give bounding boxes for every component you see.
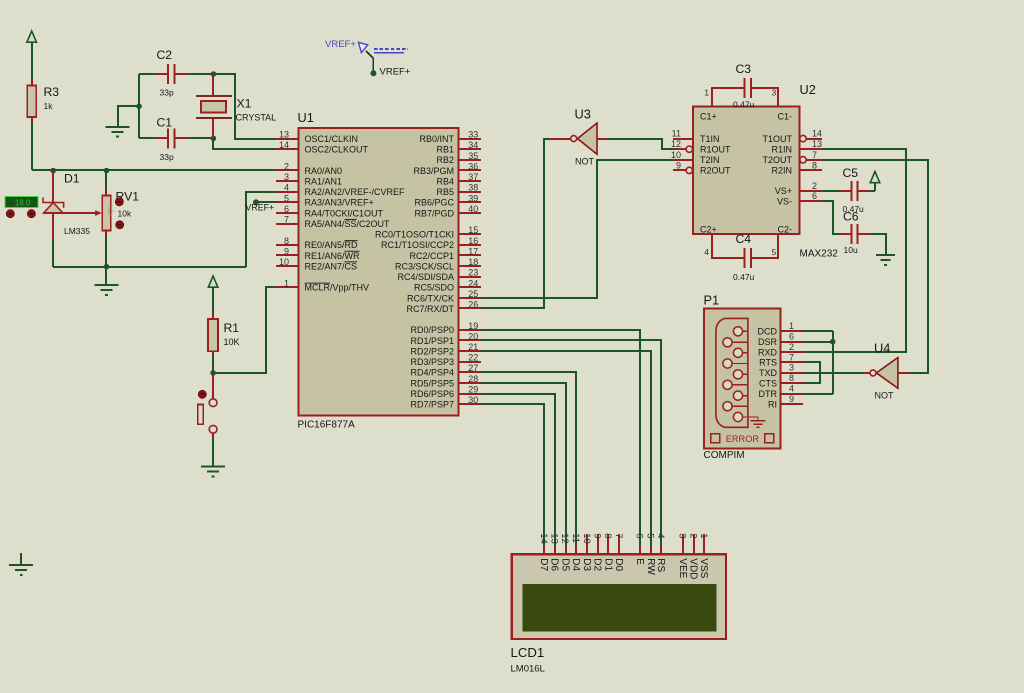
- wire C3 pin3 side: [752, 88, 778, 108]
- svg-text:U3: U3: [575, 107, 591, 122]
- svg-text:VREF+: VREF+: [380, 67, 411, 78]
- svg-text:VREF+: VREF+: [325, 39, 356, 50]
- svg-text:38: 38: [468, 183, 478, 193]
- wire C6 to ground: [858, 234, 886, 255]
- wire C2 left: [139, 73, 168, 75]
- svg-text:R3: R3: [44, 85, 60, 99]
- U1 pin 3 RA1/AN1: [276, 172, 342, 186]
- svg-text:RA1/AN1: RA1/AN1: [305, 177, 343, 187]
- svg-text:14: 14: [279, 140, 289, 150]
- svg-text:6: 6: [812, 191, 817, 201]
- svg-text:10: 10: [671, 150, 681, 160]
- svg-text:RE2/AN7/CS: RE2/AN7/CS: [305, 261, 358, 271]
- LCD pin 13 D6: [549, 533, 560, 571]
- svg-text:10K: 10K: [224, 337, 240, 347]
- svg-text:PIC16F877A: PIC16F877A: [298, 420, 356, 431]
- node RV1 ground: [104, 264, 110, 270]
- svg-text:12: 12: [559, 533, 570, 544]
- wire RD4 to LCD D4: [481, 372, 576, 548]
- power VCC arrow (C5): [870, 172, 880, 183]
- svg-text:9: 9: [789, 394, 794, 404]
- DB9 hole 5: [733, 370, 748, 379]
- U2 pin VS-: [777, 191, 822, 206]
- svg-text:3: 3: [772, 88, 777, 98]
- wire R1 to junction: [212, 356, 214, 373]
- U1 pin 22 RD3/PSP3: [410, 353, 481, 367]
- svg-text:C1-: C1-: [777, 111, 792, 121]
- U1 pin 38 RB5: [436, 183, 481, 197]
- svg-text:U4: U4: [874, 341, 890, 356]
- svg-text:COMPIM: COMPIM: [704, 450, 745, 461]
- svg-text:RD5/PSP5: RD5/PSP5: [410, 378, 454, 388]
- svg-text:9: 9: [284, 246, 289, 256]
- svg-text:40%: 40%: [109, 204, 115, 215]
- wire VCC to R1: [212, 287, 214, 319]
- DB9 shell ground: [743, 417, 766, 427]
- ground (floating, bottom-left): [9, 553, 33, 575]
- DB9 hole 2: [723, 338, 748, 347]
- wire RV1 bottom: [105, 235, 107, 267]
- svg-text:VS+: VS+: [775, 186, 792, 196]
- DB9 hole 4: [723, 359, 748, 368]
- svg-text:11: 11: [570, 533, 581, 543]
- capacitor C2: [157, 48, 175, 98]
- svg-text:27: 27: [468, 363, 478, 373]
- DB9 hole 3: [733, 348, 748, 357]
- node RV1 top: [104, 168, 110, 174]
- svg-text:RA0/AN0: RA0/AN0: [305, 166, 343, 176]
- svg-text:OSC1/CLKIN: OSC1/CLKIN: [305, 134, 359, 144]
- wire D1 bottom pin: [52, 213, 54, 242]
- U2 pin C1+: [700, 111, 717, 121]
- svg-text:NOT: NOT: [875, 391, 895, 401]
- svg-text:28: 28: [468, 374, 478, 384]
- svg-text:RD7/PSP7: RD7/PSP7: [410, 400, 454, 410]
- svg-text:MAX232: MAX232: [800, 249, 839, 260]
- svg-text:RB0/INT: RB0/INT: [419, 134, 454, 144]
- svg-text:11: 11: [672, 129, 681, 139]
- wire RD2 to LCD RW: [481, 351, 651, 548]
- svg-text:1: 1: [704, 88, 709, 98]
- svg-text:24: 24: [468, 278, 478, 288]
- svg-text:C2: C2: [157, 48, 173, 62]
- svg-text:4: 4: [704, 247, 709, 257]
- svg-text:18.0: 18.0: [15, 199, 31, 208]
- node VREF+ (pin 5): [253, 199, 259, 205]
- svg-text:7: 7: [613, 533, 624, 538]
- wire VREF+ terminal: [366, 51, 373, 72]
- RV1 terminal top: [115, 198, 123, 206]
- svg-text:RTS: RTS: [759, 358, 777, 368]
- svg-text:RE0/AN5/RD: RE0/AN5/RD: [305, 240, 359, 250]
- svg-text:3: 3: [677, 533, 688, 538]
- svg-text:VSS: VSS: [698, 558, 709, 578]
- terminal VREF+ (blue): [325, 39, 408, 53]
- svg-text:VREF+: VREF+: [246, 203, 275, 213]
- svg-text:1k: 1k: [44, 101, 54, 111]
- RV1 terminal bottom: [116, 221, 124, 229]
- svg-text:39: 39: [468, 193, 478, 203]
- wire D1 top pin: [52, 170, 54, 202]
- DB9 connector outline: [716, 318, 748, 427]
- wire crystal to OSC1: [213, 74, 276, 139]
- DB9 hole 7: [733, 391, 748, 400]
- svg-text:LM335: LM335: [64, 226, 90, 236]
- U1 pin 24 RC5/SDO: [414, 278, 481, 292]
- svg-text:RC6/TX/CK: RC6/TX/CK: [407, 293, 454, 303]
- LCD pin 9 D2: [592, 533, 603, 571]
- svg-text:DSR: DSR: [758, 337, 778, 347]
- U1 pin 9 RE1/AN6/WR: [276, 246, 360, 260]
- U1 pin 5 RA3/AN3/VREF+: [276, 193, 374, 207]
- LCD pin 5 RW: [645, 533, 656, 575]
- svg-text:RXD: RXD: [758, 347, 778, 357]
- svg-text:RA5/AN4/SS/C2OUT: RA5/AN4/SS/C2OUT: [305, 219, 391, 229]
- svg-text:9: 9: [592, 533, 603, 538]
- svg-text:CTS: CTS: [759, 379, 777, 389]
- svg-text:RA2/AN2/VREF-/CVREF: RA2/AN2/VREF-/CVREF: [305, 187, 406, 197]
- U1 pin 17 RC2/CCP1: [409, 246, 481, 260]
- svg-text:T2OUT: T2OUT: [762, 155, 792, 165]
- P1 pin 4 DTR: [759, 384, 804, 399]
- U2 pin T1IN: [673, 134, 720, 144]
- U1 pin 36 RB3/PGM: [413, 162, 481, 176]
- svg-text:D6: D6: [549, 558, 560, 571]
- svg-text:RD6/PSP6: RD6/PSP6: [410, 389, 454, 399]
- DB9 hole 6: [723, 380, 748, 389]
- svg-text:10u: 10u: [844, 245, 858, 255]
- LCD pin 14 D7: [538, 533, 549, 571]
- wire VS- to C6: [822, 201, 852, 234]
- svg-text:T1OUT: T1OUT: [762, 134, 792, 144]
- svg-text:C2+: C2+: [700, 225, 717, 235]
- wire TXD to U4 output: [803, 372, 863, 374]
- capacitor C4: [733, 232, 755, 282]
- U2 pin T2OUT: [762, 150, 822, 165]
- svg-text:16: 16: [468, 236, 478, 246]
- U2 pin R2IN: [771, 160, 822, 175]
- wire bottom rail: [53, 266, 246, 268]
- U1 pin 29 RD6/PSP6: [410, 385, 481, 399]
- svg-text:RC2/CCP1: RC2/CCP1: [409, 251, 454, 261]
- LCD pin 10 D3: [581, 533, 592, 571]
- LCD pin 6 E: [634, 533, 645, 565]
- svg-text:RB4: RB4: [436, 177, 454, 187]
- wire osc left vertical: [138, 74, 140, 138]
- wire junction to MCLR: [213, 287, 276, 373]
- svg-text:18: 18: [468, 257, 478, 267]
- U1 pin 34 RB1: [436, 140, 481, 154]
- P1 pin 8 CTS: [759, 373, 803, 388]
- svg-text:10: 10: [581, 533, 592, 544]
- svg-text:40: 40: [468, 204, 478, 214]
- svg-text:4: 4: [284, 183, 289, 193]
- U1 pin 14 OSC2/CLKOUT: [276, 140, 369, 154]
- svg-text:C1: C1: [157, 116, 173, 130]
- LCD pin 8 D1: [602, 533, 613, 571]
- U1 pin 19 RD0/PSP0: [410, 321, 481, 335]
- node VREF+ (top): [370, 70, 376, 76]
- svg-text:23: 23: [468, 268, 478, 278]
- svg-text:RI: RI: [768, 399, 777, 409]
- U2 pin T2IN: [673, 155, 720, 165]
- svg-text:2: 2: [789, 342, 794, 352]
- LCD pin 3 VEE: [677, 533, 688, 578]
- svg-text:34: 34: [468, 140, 478, 150]
- svg-text:36: 36: [468, 162, 478, 172]
- svg-text:4: 4: [789, 384, 794, 394]
- svg-text:RD1/PSP1: RD1/PSP1: [410, 336, 454, 346]
- svg-text:14: 14: [812, 129, 822, 139]
- svg-text:35: 35: [468, 151, 478, 161]
- wire C4 pin5 side: [752, 234, 778, 258]
- voltage display 18.0: [5, 197, 38, 208]
- P1 error LED square right: [765, 434, 774, 443]
- wire T2OUT to U4 input: [822, 160, 928, 373]
- svg-text:R2IN: R2IN: [771, 166, 792, 176]
- capacitor C3: [733, 62, 755, 110]
- P1 pin 2 RXD: [758, 342, 803, 357]
- svg-text:29: 29: [468, 385, 478, 395]
- svg-text:R2OUT: R2OUT: [700, 166, 731, 176]
- wire RD5 to LCD D5: [481, 383, 566, 548]
- svg-text:5: 5: [284, 193, 289, 203]
- potentiometer RV1: [102, 170, 139, 237]
- DB9 hole 9: [733, 412, 748, 421]
- svg-text:RB5: RB5: [436, 187, 454, 197]
- wire RTS to CTS: [803, 362, 820, 383]
- svg-text:2: 2: [687, 533, 698, 538]
- LCD pin 4 RS: [655, 533, 666, 572]
- inverter U3: [549, 107, 608, 167]
- svg-text:8: 8: [284, 236, 289, 246]
- U1 pin 20 RD1/PSP1: [410, 331, 481, 345]
- svg-text:22: 22: [468, 353, 478, 363]
- display terminal 1: [6, 210, 14, 218]
- P1 pin 9 RI: [768, 394, 803, 409]
- U1 pin 10 RE2/AN7/CS: [276, 257, 357, 271]
- svg-text:D0: D0: [613, 558, 624, 571]
- svg-text:7: 7: [789, 352, 794, 362]
- svg-text:6: 6: [789, 332, 794, 342]
- P1 pin 7 RTS: [759, 352, 803, 367]
- svg-text:P1: P1: [704, 293, 720, 308]
- svg-text:RC3/SCK/SCL: RC3/SCK/SCL: [395, 261, 454, 271]
- LCD pin 11 D4: [570, 533, 581, 571]
- svg-text:D2: D2: [592, 558, 603, 571]
- svg-text:33p: 33p: [160, 152, 174, 162]
- U1 pin 26 RC7/RX/DT: [406, 300, 481, 314]
- node crystal top: [211, 71, 217, 77]
- U1 pin 33 RB0/INT: [419, 130, 481, 144]
- U1 pin 4 RA2/AN2/VREF-/CVREF: [276, 183, 405, 197]
- svg-text:30: 30: [468, 395, 478, 405]
- wire RD0 to LCD E: [481, 330, 640, 548]
- svg-text:8: 8: [602, 533, 613, 538]
- U1 pin 13 OSC1/CLKIN: [276, 130, 358, 144]
- svg-text:4: 4: [655, 533, 666, 538]
- ground (oscillator): [106, 127, 130, 137]
- svg-text:RC1/T1OSI/CCP2: RC1/T1OSI/CCP2: [381, 240, 454, 250]
- svg-text:VEE: VEE: [677, 558, 688, 578]
- svg-text:0.47u: 0.47u: [733, 100, 755, 110]
- U2 pin R2OUT: [673, 166, 731, 176]
- svg-text:8: 8: [812, 160, 817, 170]
- capacitor C5: [843, 166, 865, 214]
- wire C3 pin1 side: [704, 88, 744, 108]
- wire R3 to RA0 rail: [31, 122, 33, 170]
- svg-text:T1IN: T1IN: [700, 134, 720, 144]
- svg-text:26: 26: [468, 300, 478, 310]
- svg-text:9: 9: [676, 160, 681, 170]
- wire VCC to R3: [31, 42, 33, 86]
- wire button to ground: [212, 438, 214, 466]
- wire U3 input to R1OUT: [608, 139, 673, 149]
- svg-text:U2: U2: [800, 82, 816, 97]
- ground (C6): [876, 255, 895, 265]
- svg-text:RD0/PSP0: RD0/PSP0: [410, 325, 454, 335]
- svg-text:RB2: RB2: [436, 155, 454, 165]
- power VCC arrow (top-left): [27, 31, 37, 42]
- wire C1 left: [139, 137, 168, 139]
- LCD pin 1 VSS: [698, 533, 709, 578]
- svg-text:RS: RS: [655, 558, 666, 572]
- wire C1 to OSC2: [213, 138, 276, 149]
- svg-text:RC7/RX/DT: RC7/RX/DT: [406, 304, 454, 314]
- svg-text:RC0/T1OSO/T1CKI: RC0/T1OSO/T1CKI: [375, 230, 454, 240]
- P1 error LED square left: [711, 434, 720, 443]
- svg-text:10: 10: [279, 257, 289, 267]
- svg-text:VS-: VS-: [777, 196, 792, 206]
- svg-text:1: 1: [789, 321, 794, 331]
- svg-text:7: 7: [284, 215, 289, 225]
- svg-text:13: 13: [812, 139, 822, 149]
- svg-text:RB1: RB1: [436, 145, 454, 155]
- svg-text:R1IN: R1IN: [771, 144, 792, 154]
- LCD LM016L body: [511, 554, 726, 674]
- LCD pin 7 D0: [613, 533, 624, 571]
- resistor R1: [208, 313, 239, 358]
- svg-text:D3: D3: [581, 558, 592, 571]
- wire RD7 to LCD D7: [481, 404, 544, 548]
- svg-text:RC4/SDI/SDA: RC4/SDI/SDA: [397, 272, 454, 282]
- svg-text:1: 1: [698, 533, 709, 538]
- wire RA0 rail: [32, 169, 276, 171]
- U2 pin C1-: [777, 111, 792, 121]
- svg-text:15: 15: [468, 225, 478, 235]
- svg-text:R1OUT: R1OUT: [700, 144, 731, 154]
- svg-text:10k: 10k: [118, 209, 132, 219]
- pushbutton: [198, 373, 217, 440]
- U1 pin 2 RA0/AN0: [276, 162, 342, 176]
- U1 pin 28 RD5/PSP5: [410, 374, 481, 388]
- svg-text:RA4/T0CKI/C1OUT: RA4/T0CKI/C1OUT: [305, 208, 384, 218]
- wire C1 right: [174, 137, 213, 139]
- svg-text:NOT: NOT: [575, 157, 595, 167]
- svg-text:3: 3: [284, 172, 289, 182]
- U1 pin 40 RB7/PGD: [414, 204, 481, 218]
- U2 pin T1OUT: [762, 129, 822, 144]
- svg-text:RD3/PSP3: RD3/PSP3: [410, 357, 454, 367]
- wire D1 to bottom rail: [52, 240, 54, 267]
- svg-text:C3: C3: [736, 62, 752, 76]
- svg-text:7: 7: [812, 150, 817, 160]
- U1 pin 16 RC1/T1OSI/CCP2: [381, 236, 481, 250]
- wire R1IN to RXD: [803, 149, 906, 352]
- svg-text:OSC2/CLKOUT: OSC2/CLKOUT: [305, 145, 369, 155]
- U2 pin R1IN: [771, 139, 822, 154]
- power VCC arrow (R1): [208, 276, 218, 287]
- wire VREF+ to RA3: [256, 201, 276, 203]
- svg-text:21: 21: [468, 342, 478, 352]
- capacitor C1: [157, 116, 175, 163]
- node DSR junction: [830, 339, 836, 345]
- svg-text:R1: R1: [224, 321, 240, 335]
- svg-text:CRYSTAL: CRYSTAL: [236, 113, 277, 123]
- U1 pin 18 RC3/SCK/SCL: [395, 257, 481, 271]
- U2 pin R1OUT: [673, 144, 731, 154]
- svg-text:RD4/PSP4: RD4/PSP4: [410, 368, 454, 378]
- U1 pin 8 RE0/AN5/RD: [276, 236, 358, 250]
- U1 pin 37 RB4: [436, 172, 481, 186]
- DB9 hole 8: [723, 402, 748, 411]
- svg-text:8: 8: [789, 373, 794, 383]
- U1 pin 1 MCLR/Vpp/THV: [276, 278, 369, 292]
- ground (button): [201, 467, 225, 477]
- inverter U4: [863, 341, 909, 401]
- svg-text:1: 1: [284, 278, 289, 288]
- node D1 top: [50, 168, 56, 174]
- display terminal 2: [28, 210, 36, 218]
- connector P1 COMPIM body: [704, 293, 781, 462]
- svg-text:C5: C5: [843, 166, 859, 180]
- svg-text:6: 6: [284, 204, 289, 214]
- wire ground tap: [118, 106, 139, 126]
- svg-text:D5: D5: [559, 558, 570, 571]
- node crystal bottom: [211, 136, 217, 142]
- svg-text:U1: U1: [298, 110, 314, 125]
- svg-text:D1: D1: [602, 558, 613, 571]
- svg-text:DCD: DCD: [758, 327, 778, 337]
- svg-text:C2-: C2-: [777, 225, 792, 235]
- ground (RV1): [95, 285, 119, 295]
- wire RD6 to LCD D6: [481, 394, 555, 548]
- svg-text:ERROR: ERROR: [726, 434, 760, 444]
- svg-text:RW: RW: [645, 558, 656, 575]
- U1 pin 27 RD4/PSP4: [410, 363, 481, 377]
- svg-text:RB3/PGM: RB3/PGM: [413, 166, 454, 176]
- wire RC6 to T2IN: [481, 160, 681, 298]
- U1 pin 23 RC4/SDI/SDA: [397, 268, 481, 282]
- wire C4 pin4 side: [704, 234, 744, 258]
- svg-text:17: 17: [468, 246, 478, 256]
- wire VS+ to C5: [822, 190, 852, 192]
- svg-text:20: 20: [468, 331, 478, 341]
- U1 pin 15 RC0/T1OSO/T1CKI: [375, 225, 481, 239]
- IC U1 PIC16F877A body: [298, 110, 459, 431]
- svg-text:MCLR/Vpp/THV: MCLR/Vpp/THV: [305, 283, 370, 293]
- svg-text:6: 6: [634, 533, 645, 538]
- svg-text:14: 14: [538, 533, 549, 544]
- U1 pin 25 RC6/TX/CK: [407, 289, 481, 303]
- svg-text:3: 3: [789, 363, 794, 373]
- P1 pin 3 TXD: [759, 363, 803, 378]
- svg-text:TXD: TXD: [759, 368, 778, 378]
- svg-text:13: 13: [279, 130, 289, 140]
- wire RD1 to LCD RS: [481, 340, 661, 548]
- svg-text:19: 19: [468, 321, 478, 331]
- svg-text:LM016L: LM016L: [511, 664, 545, 675]
